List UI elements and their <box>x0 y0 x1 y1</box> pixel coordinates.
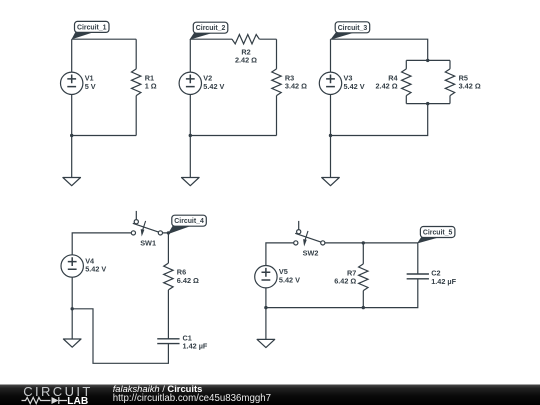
wire circuit4 switch to corner <box>160 233 168 263</box>
svg-text:1.42 µF: 1.42 µF <box>431 277 456 286</box>
node circuit2 bottom junction <box>189 134 192 137</box>
logo diode <box>52 397 59 404</box>
resistor R6 <box>164 263 199 290</box>
wire R6 to C1 <box>167 290 169 339</box>
svg-text:Circuit_4: Circuit_4 <box>174 218 204 225</box>
svg-text:1 Ω: 1 Ω <box>145 82 157 91</box>
wire circuit3 top <box>331 39 428 60</box>
node circuit5 junction <box>264 306 267 309</box>
wire circuit2 top left <box>190 38 232 40</box>
svg-text:Circuit_2: Circuit_2 <box>196 25 226 32</box>
svg-text:falakshaikh / Circuits: falakshaikh / Circuits <box>113 383 203 394</box>
wire circuit1 bottom <box>72 135 137 137</box>
svg-text:5.42 V: 5.42 V <box>203 82 224 91</box>
svg-text:6.42 Ω: 6.42 Ω <box>177 276 199 285</box>
wire R5 stubs <box>449 60 451 103</box>
wire circuit2 right branch <box>276 39 278 135</box>
flag Circuit_1 <box>72 21 110 39</box>
wire circuit2 top right <box>259 38 276 40</box>
wire parallel bottom bar <box>406 103 450 105</box>
ground <box>257 308 275 348</box>
ground <box>63 136 81 186</box>
wire circuit4 top left <box>72 233 131 255</box>
node R7 top <box>362 241 365 244</box>
node circuit4 junction <box>71 307 74 310</box>
svg-text:1.42 µF: 1.42 µF <box>183 342 208 351</box>
capacitor C2 <box>407 269 457 286</box>
flag Circuit_3 <box>330 22 369 40</box>
svg-text:Circuit_3: Circuit_3 <box>338 25 368 32</box>
voltage source V4 <box>61 255 106 277</box>
wire circuit5 switch to right <box>323 243 418 274</box>
svg-text:http://circuitlab.com/ce45u836: http://circuitlab.com/ce45u836mggh7 <box>113 393 271 404</box>
wire circuit2 left branch <box>189 39 191 135</box>
node circuit4 corner <box>167 231 170 234</box>
svg-text:SW2: SW2 <box>303 249 319 258</box>
node R7 bottom <box>362 306 365 309</box>
node parallel bottom <box>426 102 429 105</box>
flag Circuit_2 <box>189 22 227 40</box>
ground <box>182 136 200 186</box>
wire R4 stubs <box>405 60 407 103</box>
switch SW2 <box>294 221 325 258</box>
wire circuit1 left branch <box>71 39 73 135</box>
svg-text:5.42 V: 5.42 V <box>344 82 365 91</box>
ground <box>63 309 81 347</box>
node circuit3 bottom junction <box>329 134 332 137</box>
wire V4 bottom <box>71 277 73 309</box>
resistor R1 <box>132 69 157 96</box>
wire circuit3 left branch <box>330 39 332 135</box>
logo resistor squiggle <box>22 397 51 403</box>
svg-text:3.42 Ω: 3.42 Ω <box>459 82 481 91</box>
resistor R7 <box>334 264 368 291</box>
ground <box>322 136 340 186</box>
svg-text:2.42 Ω: 2.42 Ω <box>235 56 257 65</box>
node circuit1 bottom junction <box>70 134 73 137</box>
flag Circuit_4 <box>168 215 207 234</box>
flag Circuit_5 <box>417 227 455 244</box>
wire circuit3 bottom <box>331 104 428 136</box>
wire R7 top stub <box>362 243 364 264</box>
svg-text:LAB: LAB <box>67 396 88 405</box>
voltage source V3 <box>319 72 364 94</box>
capacitor C1 <box>157 333 208 350</box>
resistor R3 <box>272 69 307 96</box>
wire C1 to bottom <box>72 309 168 364</box>
svg-text:Circuit_1: Circuit_1 <box>77 24 107 31</box>
voltage source V5 <box>255 266 300 288</box>
wire C2 bottom <box>266 279 418 308</box>
wire circuit2 bottom <box>190 135 276 137</box>
svg-text:2.42 Ω: 2.42 Ω <box>376 82 398 91</box>
wire R7 bottom stub <box>362 291 364 308</box>
switch SW1 <box>131 211 162 248</box>
svg-text:5.42 V: 5.42 V <box>85 265 106 274</box>
svg-text:Circuit_5: Circuit_5 <box>423 230 453 237</box>
voltage source V1 <box>60 72 95 94</box>
resistor R4 <box>376 69 411 96</box>
wire circuit5 top left <box>266 243 296 266</box>
svg-text:5 V: 5 V <box>85 82 96 91</box>
svg-text:SW1: SW1 <box>140 239 156 248</box>
wire circuit1 right branch <box>135 39 137 135</box>
svg-text:6.42 Ω: 6.42 Ω <box>334 277 356 286</box>
resistor R5 <box>445 69 481 96</box>
wire circuit1 top <box>72 38 137 40</box>
wire V5 bottom <box>265 288 267 308</box>
voltage source V2 <box>179 72 224 94</box>
resistor R2 <box>232 35 259 65</box>
svg-text:5.42 V: 5.42 V <box>279 275 300 284</box>
node parallel top <box>426 59 429 62</box>
svg-text:3.42 Ω: 3.42 Ω <box>285 82 307 91</box>
wire parallel top bar <box>406 59 450 61</box>
